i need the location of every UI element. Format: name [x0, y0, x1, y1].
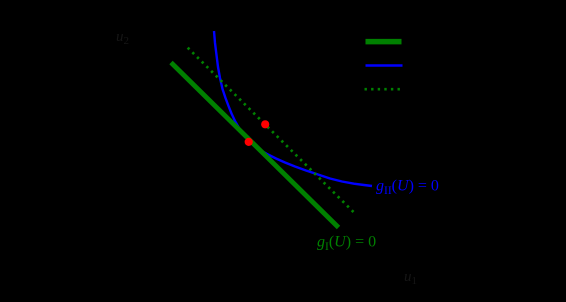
- green solid line gI(U)=0: [171, 63, 339, 228]
- legend: dotted green sample line: [365, 88, 401, 91]
- legend: solid thick green sample line: [366, 39, 402, 45]
- red dot upper (equilibrium point 2): [261, 120, 269, 128]
- blue curve gII(U)=0: [214, 31, 372, 186]
- red dot lower (equilibrium point 1): [245, 138, 253, 146]
- green dotted line (strategy line II): [188, 48, 354, 213]
- legend: solid blue sample line: [366, 64, 403, 67]
